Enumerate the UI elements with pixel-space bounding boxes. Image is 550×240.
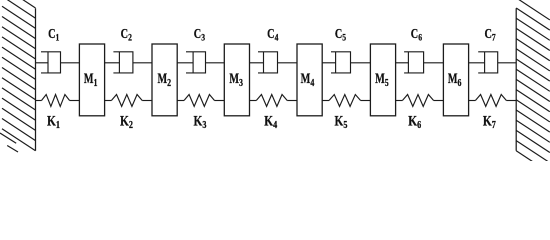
right rod wire of C5	[351, 62, 371, 64]
left rod wire of C7	[469, 62, 485, 64]
right rod wire of K2	[142, 100, 152, 102]
piston plate of C2	[118, 52, 120, 73]
left rod wire of C2	[105, 62, 120, 64]
damper C5	[322, 52, 370, 73]
left wall hatching	[2, 0, 36, 8]
cylinder cup of C2	[113, 52, 132, 73]
piston plate of C4	[263, 52, 265, 73]
spring K1	[36, 95, 80, 107]
right wall	[516, 0, 550, 173]
zigzag coil of K4	[256, 95, 287, 107]
right wall face line	[515, 8, 517, 151]
right rod wire of C6	[424, 62, 444, 64]
zigzag coil of K1	[42, 95, 70, 107]
left wall	[0, 0, 36, 152]
damper C1	[36, 52, 80, 73]
mass M6	[443, 44, 468, 116]
piston plate of C1	[47, 52, 49, 73]
piston plate of C6	[407, 52, 409, 73]
cylinder cup of C6	[404, 52, 424, 73]
spring K3	[177, 95, 224, 107]
right rod wire of C2	[133, 62, 152, 64]
zigzag coil of K5	[329, 95, 361, 107]
right rod wire of K6	[434, 100, 444, 102]
piston plate of C7	[484, 52, 486, 73]
spring K7	[469, 95, 517, 107]
piston plate of C3	[192, 52, 194, 73]
right rod wire of K5	[361, 100, 371, 102]
left rod wire of C4	[250, 62, 264, 64]
right rod wire of K1	[70, 100, 80, 102]
cylinder cup of C3	[186, 52, 206, 73]
left rod wire of K1	[36, 100, 42, 102]
spring K5	[322, 95, 370, 107]
left rod wire of K3	[177, 100, 184, 102]
right rod wire of C1	[61, 62, 80, 64]
left rod wire of C6	[396, 62, 409, 64]
right rod wire of C3	[206, 62, 225, 64]
cylinder cup of C4	[258, 52, 278, 73]
right wall hatching	[516, 0, 550, 20]
zigzag coil of K6	[402, 95, 433, 107]
spring K2	[105, 95, 152, 107]
cylinder cup of C5	[331, 52, 351, 73]
mass M4	[297, 44, 322, 116]
right rod wire of C4	[278, 62, 298, 64]
right rod wire of K7	[506, 100, 516, 102]
right rod wire of C7	[498, 62, 517, 64]
left rod wire of K6	[396, 100, 403, 102]
zigzag coil of K2	[111, 95, 142, 107]
cylinder cup of C7	[478, 52, 498, 73]
damper C3	[177, 52, 224, 73]
mass M5	[370, 44, 395, 116]
mass M2	[152, 44, 177, 116]
damper C6	[396, 52, 444, 73]
cylinder cup of C1	[41, 52, 61, 73]
left rod wire of C1	[36, 62, 49, 64]
zigzag coil of K3	[184, 95, 215, 107]
left rod wire of K7	[469, 100, 476, 102]
piston plate of C5	[335, 52, 337, 73]
right rod wire of K4	[287, 100, 297, 102]
damper C4	[250, 52, 298, 73]
damper C2	[105, 52, 152, 73]
spring K6	[396, 95, 444, 107]
right rod wire of K3	[215, 100, 225, 102]
mass M1	[79, 44, 104, 116]
left rod wire of C5	[322, 62, 335, 64]
damper C7	[469, 52, 517, 73]
left rod wire of K5	[322, 100, 329, 102]
mass M3	[224, 44, 249, 116]
zigzag coil of K7	[475, 95, 506, 107]
left rod wire of K2	[105, 100, 112, 102]
left rod wire of C3	[177, 62, 193, 64]
left rod wire of K4	[250, 100, 257, 102]
spring K4	[250, 95, 298, 107]
left wall face line	[35, 8, 37, 151]
